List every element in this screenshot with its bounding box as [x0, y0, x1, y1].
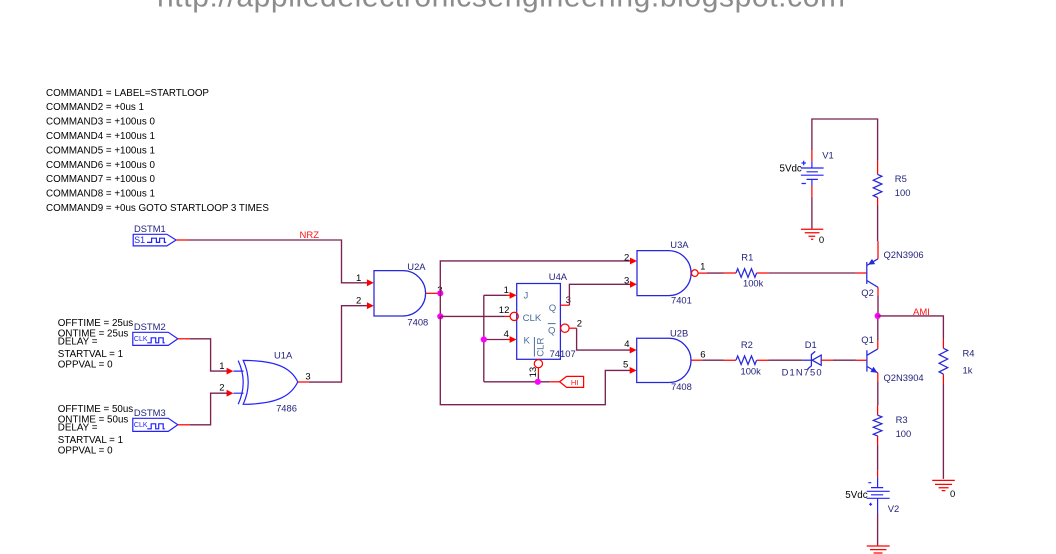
transistor Q2 (PNP Q2N3906) [861, 241, 923, 316]
junction AMI node [875, 313, 881, 319]
svg-text:6: 6 [700, 350, 705, 361]
svg-text:4: 4 [624, 339, 629, 350]
svg-text:Q: Q [549, 303, 556, 314]
HI flag [560, 376, 584, 387]
svg-text:COMMAND6 = +100us 0: COMMAND6 = +100us 0 [46, 160, 155, 171]
xor gate U1A [219, 349, 310, 413]
junction at CLK branch [437, 313, 443, 319]
svg-text:2: 2 [577, 319, 582, 330]
JK flip-flop U4A [517, 271, 576, 359]
bubble U4A CLK [510, 312, 518, 320]
svg-text:R5: R5 [895, 173, 907, 184]
svg-text:K: K [524, 335, 531, 346]
svg-text:U2A: U2A [407, 261, 426, 272]
wire to U4A CLK pin [440, 315, 504, 317]
wire R3 to V2 [877, 446, 879, 471]
stimulus parameters DSTM3 [58, 404, 134, 456]
svg-text:OPPVAL = 0: OPPVAL = 0 [58, 445, 113, 456]
pin arrow U3A pin2 [630, 258, 637, 265]
svg-text:COMMAND8 = +100us 1: COMMAND8 = +100us 1 [46, 189, 155, 200]
HI flag stub [550, 381, 560, 383]
wire V1 to ground [811, 197, 813, 229]
svg-text:100k: 100k [741, 365, 762, 376]
pin arrow U2B pin4 [630, 347, 637, 354]
bubble U4A Qbar [561, 324, 569, 332]
pin arrow U1A pin1 [227, 368, 234, 375]
svg-text:COMMAND5 = +100us 1: COMMAND5 = +100us 1 [46, 145, 155, 156]
transistor Q1 (NPN Q2N3904) [856, 316, 924, 406]
digital clock stimulus DSTM2 [133, 321, 190, 346]
pin arrow U4A pin4 K [510, 336, 517, 343]
svg-text:V2: V2 [888, 503, 899, 514]
svg-text:AMI: AMI [913, 307, 930, 318]
svg-text:12: 12 [499, 305, 510, 316]
resistor R5 [873, 161, 910, 206]
svg-text:5: 5 [623, 360, 628, 371]
svg-text:U1A: U1A [274, 349, 293, 360]
svg-text:R1: R1 [741, 252, 753, 263]
svg-text:100: 100 [895, 187, 911, 198]
svg-text:Q2: Q2 [861, 287, 874, 298]
wire U4A.Q to U3A.3 [569, 284, 630, 305]
pin arrow U1A pin2 [227, 390, 234, 397]
stimulus parameters DSTM2 [58, 318, 134, 370]
pin arrow U2A pin1 [367, 279, 374, 286]
pin arrow U2B pin5 [630, 367, 637, 374]
wire R2 to D1 [769, 359, 803, 361]
wire D1 to Q1 base [833, 359, 856, 361]
svg-text:74107: 74107 [550, 348, 576, 359]
wire AMI net [878, 316, 944, 339]
wire U1A.3 to U2A.2 [309, 306, 367, 382]
svg-text:DSTM1: DSTM1 [134, 223, 166, 234]
junction at K pin [481, 336, 487, 342]
svg-text:COMMAND7 = +100us 0: COMMAND7 = +100us 0 [46, 174, 155, 185]
svg-text:DSTM3: DSTM3 [134, 407, 166, 418]
svg-text:13: 13 [528, 367, 539, 378]
svg-text:Q: Q [548, 325, 555, 336]
svg-text:CLR: CLR [536, 338, 547, 357]
bubble U4A CLR [534, 360, 542, 368]
svg-text:7408: 7408 [671, 381, 692, 392]
svg-text:5Vdc: 5Vdc [845, 490, 867, 501]
wire U2A.3 to U3A.2 [440, 261, 630, 293]
svg-text:0: 0 [950, 489, 955, 500]
wire DSTM2 to U1A.1 [190, 339, 227, 371]
svg-text:R3: R3 [896, 414, 908, 425]
diode D1 (zener D1N750) [782, 339, 833, 378]
resistor R1 [724, 252, 769, 289]
junction at CLR pin [535, 379, 541, 385]
wire V2 to ground [877, 514, 879, 546]
svg-text:S1: S1 [134, 235, 145, 245]
svg-text:1k: 1k [963, 365, 973, 376]
svg-text:U4A: U4A [549, 271, 568, 282]
digital clock stimulus DSTM3 [133, 407, 190, 432]
svg-text:DELAY =: DELAY = [58, 423, 98, 434]
svg-text:2: 2 [624, 253, 629, 264]
svg-text:R2: R2 [741, 339, 753, 350]
svg-text:Q1: Q1 [861, 334, 874, 345]
svg-text:0: 0 [819, 235, 824, 246]
svg-text:3: 3 [305, 372, 310, 383]
svg-text:D1N750: D1N750 [782, 367, 822, 378]
svg-text:NRZ: NRZ [300, 230, 320, 241]
svg-text:V1: V1 [822, 149, 833, 160]
svg-text:3: 3 [624, 275, 629, 286]
and gate U2B [623, 328, 706, 393]
svg-text:COMMAND4 = +100us 1: COMMAND4 = +100us 1 [46, 131, 155, 142]
svg-text:1: 1 [219, 361, 224, 372]
svg-text:HI: HI [571, 378, 579, 387]
and gate U2A [356, 261, 443, 328]
svg-text:1: 1 [504, 285, 509, 296]
svg-text:COMMAND3 = +100us 0: COMMAND3 = +100us 0 [46, 117, 155, 128]
svg-text:OPPVAL = 0: OPPVAL = 0 [58, 359, 113, 370]
junction at U2A output [437, 290, 443, 296]
wire U2A.3 down to CLK branch [439, 293, 441, 316]
svg-text:5Vdc: 5Vdc [780, 164, 802, 175]
svg-text:CLK: CLK [134, 422, 148, 429]
pin stub U4A Qbar [569, 327, 576, 329]
pin arrow U3A pin3 [630, 281, 637, 288]
svg-text:CLK: CLK [134, 336, 148, 343]
resistor R4 [939, 339, 974, 385]
wire HI to J/K tie [484, 295, 550, 382]
ground 0 at V1 [801, 229, 824, 246]
wire U2B.6 to R2 [702, 359, 723, 361]
svg-text:J: J [524, 291, 529, 302]
pin arrow U4A pin1 J [510, 292, 517, 299]
svg-text:D1: D1 [805, 339, 817, 350]
svg-text:http://appliedelectronicsengin: http://appliedelectronicsengineering.blo… [157, 0, 845, 14]
nand gate U3A [624, 239, 707, 306]
wire NRZ net [189, 240, 368, 283]
svg-text:7408: 7408 [407, 316, 428, 327]
svg-text:3: 3 [566, 295, 571, 306]
wire U4A.Qbar to U2B.4 [577, 328, 630, 350]
wire R4 to ground [942, 384, 944, 479]
wire U3A.1 to R1 [707, 272, 724, 274]
svg-text:Q2N3904: Q2N3904 [884, 372, 924, 383]
svg-text:Q2N3906: Q2N3906 [884, 249, 924, 260]
svg-text:100k: 100k [743, 277, 764, 288]
ground at V2 [867, 546, 890, 553]
pin arrow U2A pin2 [367, 302, 374, 309]
svg-text:COMMAND9 = +0us GOTO STARTLOOP: COMMAND9 = +0us GOTO STARTLOOP 3 TIMES [46, 203, 269, 214]
svg-text:7401: 7401 [671, 295, 692, 306]
svg-text:U3A: U3A [670, 239, 689, 250]
svg-text:DSTM2: DSTM2 [134, 321, 166, 332]
digital stimulus DSTM1 [133, 223, 188, 246]
wire V1 R5 top rail [812, 119, 878, 161]
svg-text:1: 1 [356, 273, 361, 284]
svg-text:2: 2 [356, 296, 361, 307]
svg-text:1: 1 [700, 262, 705, 273]
wire U2A.3 to U2B.5 (bottom run) [440, 316, 630, 404]
svg-text:COMMAND2 = +0us 1: COMMAND2 = +0us 1 [46, 102, 144, 113]
svg-text:100: 100 [896, 428, 912, 439]
wire R5 to Q2 emitter [877, 206, 879, 242]
voltage source V1 (5Vdc) [780, 149, 834, 197]
svg-text:2: 2 [219, 383, 224, 394]
svg-text:U2B: U2B [670, 328, 688, 339]
resistor R3 [873, 405, 911, 445]
svg-text:CLK: CLK [523, 313, 542, 324]
voltage source V2 (5Vdc) [845, 470, 899, 514]
svg-text:7486: 7486 [276, 403, 297, 414]
svg-text:DELAY =: DELAY = [58, 337, 98, 348]
ground 0 at R4 [932, 480, 955, 500]
svg-text:4: 4 [504, 329, 509, 340]
svg-text:COMMAND1 = LABEL=STARTLOOP: COMMAND1 = LABEL=STARTLOOP [46, 88, 209, 99]
pin stub U4A CLR [537, 368, 539, 374]
pin stub U4A Q [560, 304, 569, 306]
svg-text:R4: R4 [963, 348, 975, 359]
wire R1 to Q2 base [769, 272, 856, 274]
resistor R2 [724, 339, 769, 376]
wire DSTM3 to U1A.2 [190, 393, 227, 425]
stimulus command text block [46, 88, 269, 214]
